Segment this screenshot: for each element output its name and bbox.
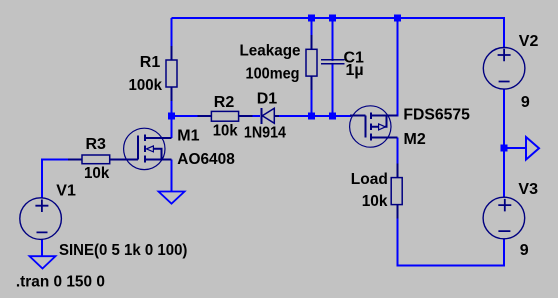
- wire R1 vertical top lead: [171, 18, 173, 60]
- svg-text:9: 9: [521, 94, 530, 111]
- svg-text:M2: M2: [404, 131, 426, 148]
- junction node R1/R2/M1: [168, 113, 175, 120]
- svg-text:Load: Load: [351, 171, 388, 188]
- svg-text:.tran 0 150 0: .tran 0 150 0: [16, 274, 105, 291]
- wire M1 drain drop: [171, 116, 173, 138]
- wire R1 bottom to node row: [171, 87, 173, 116]
- junction node M2 drain top: [394, 15, 401, 22]
- svg-text:Leakage: Leakage: [240, 43, 301, 60]
- wire R3 left to V1 top: [42, 160, 110, 198]
- svg-text:10k: 10k: [362, 193, 388, 210]
- svg-text:1N914: 1N914: [244, 125, 286, 142]
- ground under V1: [30, 256, 56, 268]
- junction node C1 bottom: [329, 113, 336, 120]
- wire M2 source to load to bottom rail to V3: [398, 138, 505, 266]
- junction node leakage top: [308, 15, 315, 22]
- junction node leakage bottom: [308, 113, 315, 120]
- ground under M1: [159, 192, 185, 204]
- svg-text:D1: D1: [257, 90, 278, 107]
- resistor Leakage: [306, 35, 317, 90]
- svg-text:100meg: 100meg: [246, 65, 300, 82]
- wire M1 source to ground: [171, 160, 173, 192]
- wire V1 bottom to ground: [41, 240, 43, 257]
- wire C1 vertical: [332, 18, 334, 116]
- svg-text:R1: R1: [140, 54, 161, 71]
- wire leakage resistor vertical: [311, 18, 313, 116]
- output port flag: [526, 137, 539, 160]
- svg-text:M1: M1: [177, 127, 199, 144]
- resistor R2: [198, 111, 253, 121]
- voltage source V1: [20, 198, 62, 240]
- wire top rail from R1 top to V2 drop: [172, 18, 505, 48]
- svg-text:10k: 10k: [213, 122, 238, 139]
- svg-text:1µ: 1µ: [346, 62, 364, 79]
- pmos transistor M2: [350, 106, 398, 147]
- resistor R1: [166, 46, 177, 101]
- svg-text:SINE(0 5 1k 0 100): SINE(0 5 1k 0 100): [59, 242, 187, 259]
- svg-text:AO6408: AO6408: [177, 151, 235, 168]
- nmos transistor M1: [124, 128, 172, 169]
- svg-text:R2: R2: [214, 94, 235, 111]
- svg-text:FDS6575: FDS6575: [403, 107, 470, 124]
- junction node V2/V3: [501, 145, 508, 152]
- svg-text:100k: 100k: [129, 77, 163, 94]
- voltage source V3: [483, 197, 525, 239]
- svg-text:V3: V3: [518, 181, 538, 198]
- svg-text:V1: V1: [56, 182, 76, 199]
- capacitor C1: [321, 60, 344, 64]
- resistor Load: [391, 164, 402, 219]
- wire M2 drain vertical: [397, 18, 399, 117]
- svg-text:9: 9: [520, 242, 529, 259]
- wire node row from R1/M1 junction to D1: [172, 115, 261, 117]
- diode D1: [262, 108, 280, 124]
- junction node C1 top: [329, 15, 336, 22]
- svg-text:R3: R3: [86, 136, 107, 153]
- wire V2 bottom to V3 top: [503, 90, 505, 198]
- svg-text:V2: V2: [519, 33, 539, 50]
- resistor R3: [68, 155, 124, 164]
- wire D1 anode to M2 gate: [275, 115, 352, 117]
- svg-text:10k: 10k: [84, 165, 109, 182]
- wire port stub: [504, 147, 526, 149]
- voltage source V2: [483, 48, 525, 90]
